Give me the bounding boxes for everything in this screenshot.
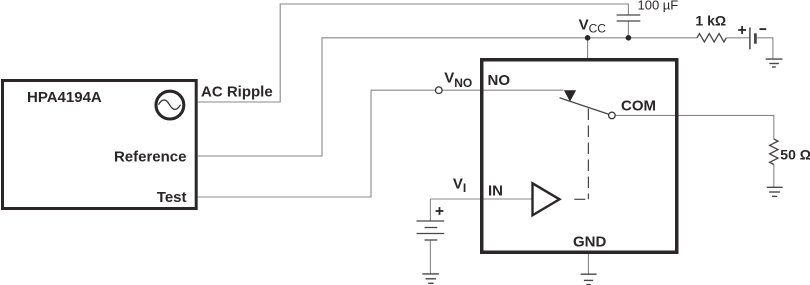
svg-text:IN: IN	[488, 183, 503, 200]
svg-text:Reference: Reference	[114, 148, 187, 165]
svg-text:100 µF: 100 µF	[638, 0, 679, 13]
svg-text:50 Ω: 50 Ω	[780, 147, 810, 163]
svg-text:1 kΩ: 1 kΩ	[695, 12, 726, 28]
svg-text:HPA4194A: HPA4194A	[27, 89, 102, 106]
svg-text:AC Ripple: AC Ripple	[201, 83, 273, 100]
svg-text:GND: GND	[573, 233, 607, 250]
svg-text:COM: COM	[621, 98, 656, 115]
svg-text:Test: Test	[157, 189, 187, 206]
svg-text:NO: NO	[488, 72, 511, 89]
